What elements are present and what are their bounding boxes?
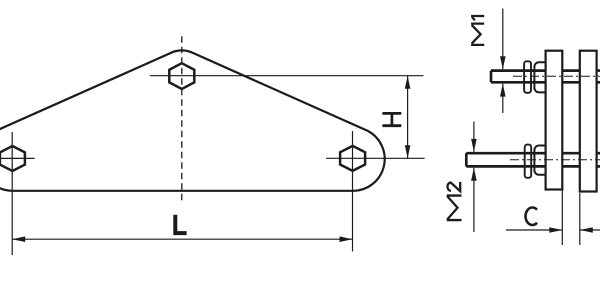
label H (rotated)	[382, 113, 401, 125]
label L (bold)	[175, 215, 186, 233]
dimension L arrow left	[12, 236, 25, 242]
dimension L line	[12, 238, 352, 240]
centerline left hole horizontal	[0, 157, 35, 159]
dimension C arrow right-pointing	[549, 227, 562, 233]
top bolt shaft right stub	[597, 71, 600, 83]
centerline apex vertical (dashed)	[181, 36, 183, 202]
dimension C line right	[580, 229, 600, 231]
bottom bolt centerline	[510, 159, 600, 161]
top bolt split pin	[524, 61, 531, 93]
dimension M1 line lower	[502, 84, 504, 113]
dimension H line	[407, 76, 409, 159]
top bolt nut	[534, 62, 546, 92]
top bolt centerline	[513, 75, 600, 77]
dimension L arrow right	[340, 236, 353, 242]
dimension M2 arrow up	[471, 168, 477, 181]
dimension M2 arrow down	[471, 139, 477, 152]
bottom bolt split pin	[525, 145, 532, 178]
label C	[526, 208, 537, 225]
dimension C extension right	[579, 193, 581, 245]
bolt head left (hex)	[0, 146, 25, 171]
dimension C arrow left-pointing	[580, 227, 593, 233]
yoke plate outline (front view)	[0, 50, 385, 190]
top bolt shaft	[491, 71, 546, 83]
centerline apex horizontal / H top extension	[150, 75, 424, 77]
side view plate 2	[580, 51, 597, 192]
bottom bolt shaft right stub	[597, 153, 600, 166]
dimension M2 line lower	[473, 168, 475, 232]
side view plate 1	[546, 51, 563, 190]
label M1 (rotated)	[471, 16, 484, 45]
dimension M1 arrow down	[500, 56, 506, 69]
dimension H arrow up	[405, 76, 411, 89]
bolt head apex (hex)	[169, 63, 194, 89]
dimension C extension left	[561, 190, 563, 246]
bottom bolt shaft between plates	[562, 153, 580, 166]
centerline right hole horizontal / H bottom extension	[326, 157, 425, 159]
dimension M1 line upper	[502, 9, 504, 70]
bottom bolt shaft	[466, 153, 545, 166]
dimension C line left	[506, 229, 562, 231]
bottom bolt nut	[534, 146, 546, 175]
bolt head right (hex)	[340, 146, 365, 171]
label M2 (rotated)	[447, 182, 462, 220]
centerline left hole vertical / L left extension	[11, 132, 13, 255]
top bolt shaft between plates	[562, 71, 580, 83]
dimension M1 arrow up	[500, 84, 506, 97]
dimension H arrow down	[405, 145, 411, 158]
centerline right hole vertical / L right extension	[352, 131, 354, 252]
dimension M2 line upper	[473, 122, 475, 152]
